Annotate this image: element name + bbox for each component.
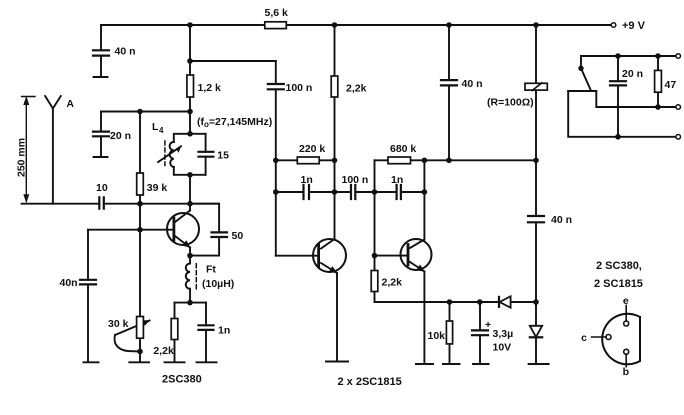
svg-text:3,3µ: 3,3µ — [493, 328, 514, 340]
svg-text:47: 47 — [665, 79, 677, 91]
svg-text:10V: 10V — [493, 342, 512, 354]
svg-text:30 k: 30 k — [108, 318, 129, 330]
svg-text:1n: 1n — [301, 174, 313, 186]
svg-text:c: c — [581, 332, 587, 344]
svg-text:b: b — [623, 366, 629, 378]
svg-text:2 x 2SC1815: 2 x 2SC1815 — [338, 376, 402, 388]
svg-text:680 k: 680 k — [390, 143, 416, 155]
svg-text:40 n: 40 n — [551, 214, 572, 226]
svg-text:1n: 1n — [391, 174, 403, 186]
svg-text:39 k: 39 k — [147, 182, 168, 194]
svg-text:100 n: 100 n — [342, 174, 369, 186]
svg-text:20 n: 20 n — [622, 68, 643, 80]
svg-text:2 SC1815: 2 SC1815 — [594, 278, 643, 290]
svg-text:(R=100Ω): (R=100Ω) — [487, 97, 534, 109]
svg-text:e: e — [623, 295, 629, 307]
svg-text:40n: 40n — [60, 277, 78, 289]
svg-text:A: A — [66, 98, 74, 110]
svg-text:10: 10 — [96, 182, 108, 194]
svg-text:Ft: Ft — [206, 264, 216, 276]
svg-text:40 n: 40 n — [462, 78, 483, 90]
svg-text:(fo=27,145MHz): (fo=27,145MHz) — [197, 116, 272, 129]
svg-text:2,2k: 2,2k — [346, 83, 367, 95]
svg-text:20 n: 20 n — [110, 130, 131, 142]
svg-text:1,2 k: 1,2 k — [198, 82, 222, 94]
svg-text:250 mm: 250 mm — [16, 138, 28, 177]
svg-text:L: L — [152, 121, 159, 133]
svg-text:15: 15 — [217, 150, 229, 162]
svg-text:2SC380: 2SC380 — [162, 374, 202, 386]
svg-text:40 n: 40 n — [115, 46, 136, 58]
svg-text:2,2k: 2,2k — [382, 277, 403, 289]
svg-text:2 SC380,: 2 SC380, — [596, 260, 642, 272]
svg-text:10k: 10k — [428, 330, 446, 342]
svg-text:100 n: 100 n — [286, 82, 313, 94]
svg-text:5,6 k: 5,6 k — [265, 7, 289, 19]
svg-text:4: 4 — [159, 126, 164, 135]
svg-text:220 k: 220 k — [299, 143, 325, 155]
svg-text:+9 V: +9 V — [622, 20, 646, 32]
svg-text:+: + — [485, 319, 491, 331]
svg-text:1n: 1n — [218, 325, 230, 337]
svg-text:50: 50 — [232, 230, 244, 242]
svg-text:2,2k: 2,2k — [153, 345, 174, 357]
svg-text:(10µH): (10µH) — [202, 278, 234, 290]
